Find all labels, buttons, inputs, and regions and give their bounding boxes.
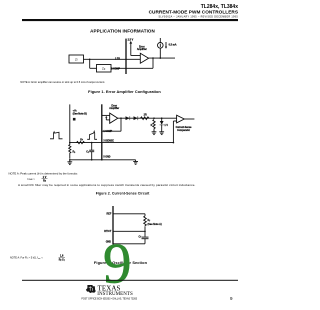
svg-text:ZI: ZI xyxy=(75,57,78,61)
svg-text:NOTE A: Error amplifier can s: NOTE A: Error amplifier can source or si… xyxy=(20,80,105,84)
svg-text:REF: REF xyxy=(107,213,112,216)
svg-text:0.5 mA: 0.5 mA xyxy=(169,43,177,46)
svg-text:R: R xyxy=(151,124,153,127)
svg-text:5 GND: 5 GND xyxy=(103,156,110,158)
svg-text:INSTRUMENTS: INSTRUMENTS xyxy=(97,292,133,297)
svg-text:(See Note A): (See Note A) xyxy=(148,223,162,226)
svg-text:2R: 2R xyxy=(144,114,147,117)
svg-text:Error: Error xyxy=(111,105,117,107)
svg-text:1 V: 1 V xyxy=(164,124,168,127)
svg-text:3 ISENSE: 3 ISENSE xyxy=(103,141,114,143)
svg-text:1 COMP: 1 COMP xyxy=(111,68,120,70)
svg-text:NOTE A: For RT > 5 kΩ, fosc: NOTE A: For RT > 5 kΩ, fosc ≈ xyxy=(10,256,43,259)
svg-text:2 FB: 2 FB xyxy=(115,59,120,61)
svg-text:1 COMP: 1 COMP xyxy=(103,131,112,133)
svg-text:Comparator: Comparator xyxy=(177,129,190,132)
svg-text:(See Note B): (See Note B) xyxy=(73,112,87,115)
svg-text:Figure 1. Error Amplifier Conf: Figure 1. Error Amplifier Configuration xyxy=(88,90,161,94)
svg-text:2.5 V: 2.5 V xyxy=(128,39,134,42)
svg-text:CURRENT-MODE PWM CONTROLLERS: CURRENT-MODE PWM CONTROLLERS xyxy=(149,9,238,14)
svg-text:Amplifier: Amplifier xyxy=(137,48,147,51)
svg-text:Amplifier: Amplifier xyxy=(109,107,119,110)
svg-text:Figure 2. Current-Sense Circui: Figure 2. Current-Sense Circuit xyxy=(96,191,150,195)
svg-text:Current-Sense: Current-Sense xyxy=(176,126,193,129)
svg-text:POST OFFICE BOX 655303 • DAL: POST OFFICE BOX 655303 • DALLAS, TEXAS 7… xyxy=(81,297,137,300)
svg-text:A small RC filter may be requi: A small RC filter may be required in som… xyxy=(18,183,195,187)
svg-text:ZF: ZF xyxy=(102,67,106,71)
svg-text:APPLICATION INFORMATION: APPLICATION INFORMATION xyxy=(90,29,155,34)
svg-text:IPEAK ≈: IPEAK ≈ xyxy=(28,178,36,181)
svg-text:SLVS062A – JANUARY 1995 – REVI: SLVS062A – JANUARY 1995 – REVISED DECEMB… xyxy=(159,15,239,18)
